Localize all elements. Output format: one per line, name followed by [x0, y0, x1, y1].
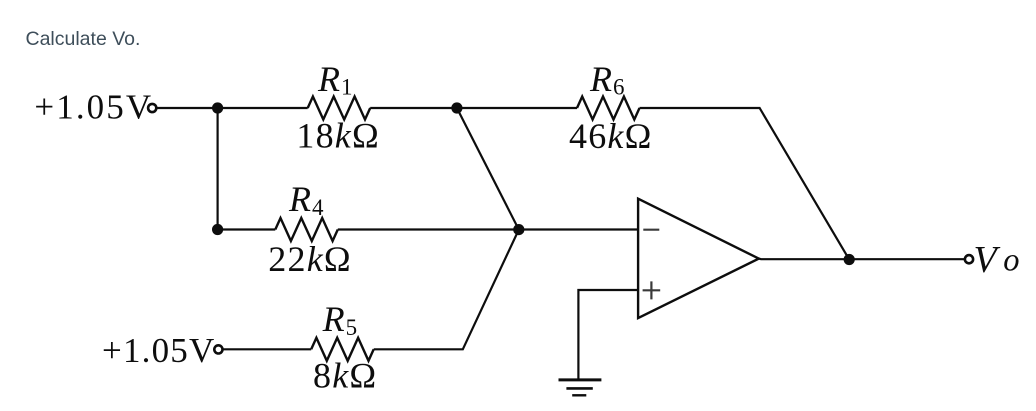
svg-text:+1.05V: +1.05V — [34, 88, 153, 127]
svg-text:R4: R4 — [288, 179, 324, 220]
svg-text:+1.05V: +1.05V — [102, 331, 215, 370]
svg-text:8kΩ: 8kΩ — [313, 356, 377, 396]
svg-text:Calculate Vo.: Calculate Vo. — [26, 28, 141, 50]
svg-text:R5: R5 — [322, 299, 358, 340]
svg-text:Vo: Vo — [974, 239, 1020, 281]
svg-text:R6: R6 — [589, 59, 625, 100]
svg-text:46kΩ: 46kΩ — [569, 116, 653, 156]
svg-text:R1: R1 — [317, 59, 353, 100]
svg-text:18kΩ: 18kΩ — [296, 116, 380, 156]
svg-text:22kΩ: 22kΩ — [268, 239, 352, 279]
